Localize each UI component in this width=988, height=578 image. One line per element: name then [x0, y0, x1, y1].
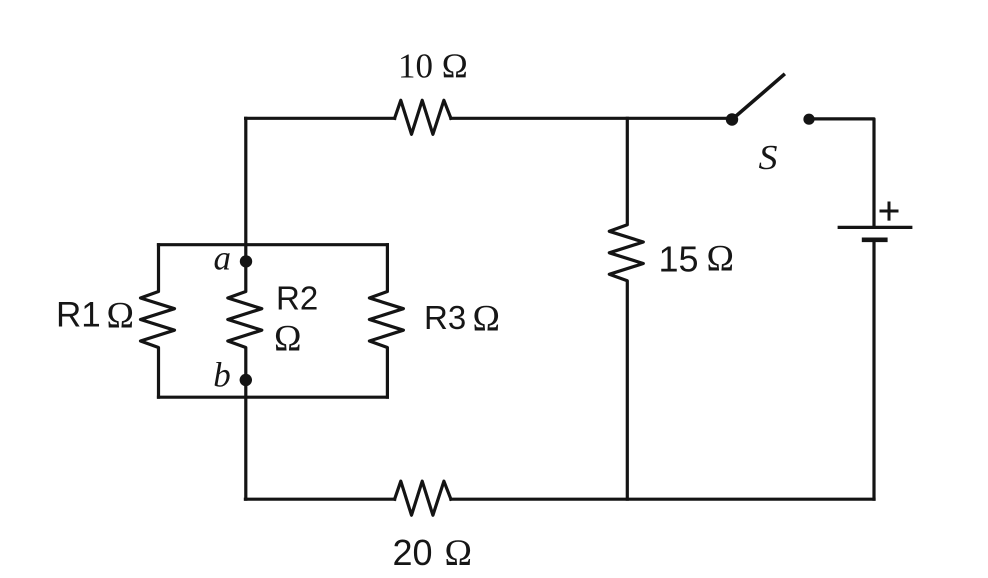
svg-text:Ω: Ω — [107, 295, 135, 336]
svg-text:15: 15 — [659, 239, 699, 280]
svg-text:R1: R1 — [56, 295, 101, 334]
svg-text:Ω: Ω — [707, 239, 735, 280]
svg-text:Ω: Ω — [274, 319, 302, 360]
svg-text:Ω: Ω — [445, 533, 473, 574]
svg-text:b: b — [213, 355, 231, 394]
svg-text:S: S — [759, 138, 778, 177]
svg-text:a: a — [214, 239, 232, 278]
svg-text:R2: R2 — [276, 280, 318, 317]
svg-text:20: 20 — [393, 532, 433, 573]
svg-text:10 Ω: 10 Ω — [398, 47, 468, 86]
svg-text:R3: R3 — [424, 299, 466, 336]
svg-text:Ω: Ω — [473, 299, 501, 340]
